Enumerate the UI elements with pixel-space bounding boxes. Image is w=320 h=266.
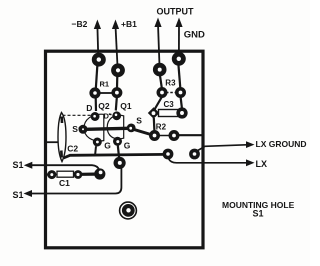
svg-text:G: G <box>124 141 131 151</box>
svg-text:C2: C2 <box>67 144 78 154</box>
svg-text:S1: S1 <box>253 209 264 219</box>
svg-text:OUTPUT: OUTPUT <box>157 7 195 17</box>
svg-text:Q2: Q2 <box>98 101 110 111</box>
svg-text:S1: S1 <box>13 160 24 170</box>
svg-text:−B2: −B2 <box>72 19 88 29</box>
svg-text:S1: S1 <box>13 190 24 200</box>
svg-text:R3: R3 <box>165 79 176 88</box>
svg-text:D: D <box>86 103 92 113</box>
svg-text:R2: R2 <box>156 123 167 132</box>
svg-text:C3: C3 <box>164 100 175 109</box>
svg-text:LX: LX <box>256 159 268 169</box>
svg-text:LX GROUND: LX GROUND <box>256 139 307 149</box>
svg-text:D: D <box>104 112 110 121</box>
svg-text:G: G <box>104 141 111 151</box>
svg-text:S: S <box>72 124 78 134</box>
svg-text:C1: C1 <box>59 178 70 188</box>
svg-text:S: S <box>136 116 142 126</box>
svg-text:R1: R1 <box>100 80 110 89</box>
svg-text:GND: GND <box>184 30 205 41</box>
svg-text:Q1: Q1 <box>120 101 132 111</box>
svg-text:+B1: +B1 <box>121 19 137 29</box>
